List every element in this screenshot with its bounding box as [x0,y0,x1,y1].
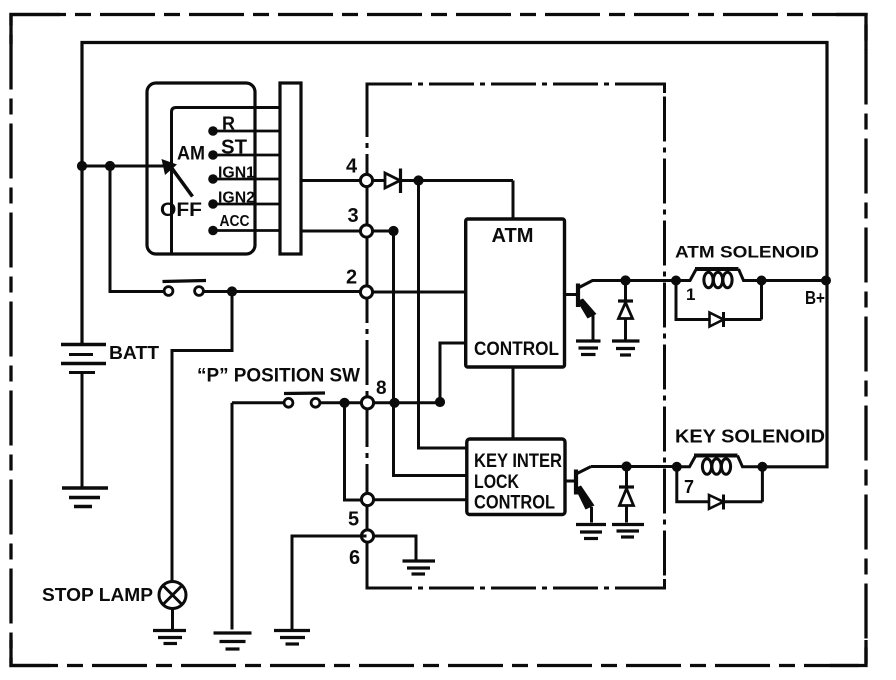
solid corner ticks on control box [367,84,665,588]
ground: D2 ground [612,341,640,355]
op-box U2 KEY INTERLOCK CONTROL [467,439,565,515]
svg-text:ST: ST [221,137,247,159]
transistor Q2 (key interlock output) [565,467,595,523]
svg-text:B+: B+ [805,288,825,308]
connector bar [280,83,301,254]
ground: battery ground [62,488,108,507]
wire: 345 leg down to node 5 [345,403,367,500]
wire: P switch to ground [231,403,234,630]
svg-text:CONTROL: CONTROL [474,339,559,360]
svg-text:BATT: BATT [109,343,159,363]
solenoid L1 ATM SOLENOID (pin 1) [671,269,767,288]
wire: stop lamp feed (from rail dot down, NC switch, to node 2) [110,166,164,292]
wire: Q1 collector rail [592,279,676,282]
node: junction dot after D1 [413,175,423,185]
ground: D3 ground [612,525,644,538]
wire: node 3 to junction [367,230,394,233]
node 8 connector [361,397,373,409]
wire: P switch to node 8 and onward [320,401,444,404]
node: junction dot right of node 3 [388,226,398,236]
wire: Q2 collector rail [591,465,677,468]
svg-text:6: 6 [349,547,360,569]
control unit dash-dot box [367,84,665,588]
wire: node 6 left leg to ground [292,536,367,629]
ignition switch arm (pivot arrow toward OFF) [162,159,193,197]
ignition switch box [147,83,255,254]
node: junction dot at D2 [620,275,630,285]
wire: rail to ignition switch pivot [82,165,165,168]
node 6 connector [361,530,373,542]
wire: node 2 to ATM CONTROL [367,291,466,294]
node 2 connector [360,286,372,298]
ground: stop lamp ground [153,631,186,644]
wire: B+ power rail (battery top to top edge to right side down to solenoids) [82,43,827,467]
svg-text:“P” POSITION SW: “P” POSITION SW [197,366,360,387]
wire: node 6 right leg to ground [373,536,416,560]
svg-text:1: 1 [686,285,695,304]
diode D4 (flyback across L1) [676,281,762,328]
svg-text:KEY INTER: KEY INTER [474,451,562,472]
svg-text:KEY SOLENOID: KEY SOLENOID [675,427,825,447]
ignition switch inner box [172,108,281,254]
switch: stop lamp switch contacts [163,281,207,296]
ground: Q2 emitter ground [576,525,606,539]
svg-text:LOCK: LOCK [474,472,519,493]
svg-text:4: 4 [346,156,358,178]
svg-text:IGN2: IGN2 [218,190,255,207]
wire: L1 to B+ [762,279,828,282]
svg-text:STOP LAMP: STOP LAMP [42,585,153,605]
svg-text:IGN1: IGN1 [218,165,255,182]
node: junction dot stop lamp branch [227,286,237,296]
node 4 connector [360,174,372,186]
svg-text:2: 2 [346,267,357,289]
wire: ATM CONTROL bottom to KEY INTERLOCK top [512,367,515,439]
wires: contacts to connector bar [213,131,280,231]
node B+ [821,276,831,286]
svg-text:CONTROL: CONTROL [474,493,555,514]
wire: 440 leg up into ATM CONTROL (y 343) [440,343,466,402]
ground: node 6 left ground [274,631,310,645]
svg-text:3: 3 [348,205,359,227]
node 5 connector [361,493,373,505]
svg-text:OFF: OFF [160,200,202,221]
ground: P switch ground [214,633,252,649]
battery BATT [61,345,106,488]
solid overlay on node column [366,160,369,300]
node 3 connector [360,225,372,237]
wire: bar to node 3 [301,230,367,233]
lamp: STOP LAMP bulb [159,582,186,630]
diode D5 (flyback across L2) [677,467,763,510]
diode D1 (after node 4) [367,169,514,194]
ignition switch contacts R/ST/IGN1/IGN2/ACC [208,126,218,235]
ground: Q1 emitter ground [576,341,601,355]
wire: bar to node 4 [301,179,367,182]
diode D3 (to ground) [619,467,634,523]
solenoid L2 KEY SOLENOID (pin 7) [672,456,768,475]
wire: switch to node 2 [204,290,367,293]
node: junction dot at 394 [389,398,399,408]
wire: D1 to ATM CONTROL top [512,181,515,220]
svg-text:AM: AM [177,144,205,165]
svg-text:ATM SOLENOID: ATM SOLENOID [675,243,819,262]
node: junction dot feeding stop-lamp branch [105,161,115,171]
wire: diode leg down into KEY INTERLOCK (y 448) [419,181,467,448]
wire: node 5 to KEY INTERLOCK [373,498,467,501]
node: junction dot at D3 [621,461,631,471]
svg-text:R: R [222,114,235,134]
svg-text:8: 8 [376,378,387,399]
svg-text:7: 7 [684,477,694,497]
svg-text:ATM: ATM [492,225,534,247]
switch: P position switch [232,393,325,407]
transistor Q1 (ATM output) [565,281,597,341]
ground: node 6 right ground [403,561,436,574]
diode D2 (to ground) [618,281,633,341]
svg-text:ACC: ACC [220,213,250,230]
node: junction dot at 440 [435,397,445,407]
node: junction dot at 345 (to node 5 leg) [339,398,349,408]
wire: node3 vertical down into KEY INTERLOCK (y 475.5) [394,231,467,476]
op-box U1 ATM CONTROL [466,219,565,367]
wire: to stop lamp [172,292,232,582]
svg-text:5: 5 [348,509,359,531]
node: junction dot at rail/feed split [77,161,87,171]
